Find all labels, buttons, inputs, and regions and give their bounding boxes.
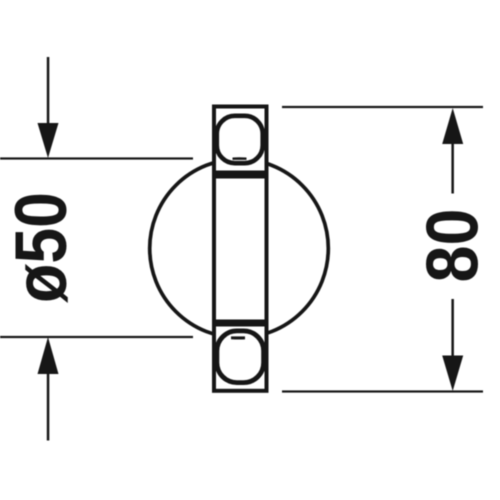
left dimension upper extension line [0,157,193,159]
left dimension lower extension line [0,336,193,338]
left lower arrowhead (points up) [38,337,59,374]
left upper arrowhead (points down) [38,123,59,158]
left upper arrow shaft [47,57,50,124]
bottom mounting bar [213,320,268,327]
ring apex tick arcs [150,159,329,338]
svg-text:80: 80 [411,209,494,283]
svg-text:ø50: ø50 [0,192,82,303]
right dimension upper extension line [282,106,483,108]
right upper arrow shaft [451,144,454,194]
ring circle (o50) [150,159,329,338]
right lower arrow shaft [451,299,454,356]
top knob (rounded square) [217,116,263,163]
bottom knob (rounded square) [217,331,264,383]
top mounting bar [213,171,268,179]
right lower arrowhead (points down) [442,356,463,392]
right dimension lower extension line [282,390,483,392]
bracket body rectangle [214,107,267,391]
right upper arrowhead (points up) [442,108,463,144]
left lower arrow shaft [47,374,50,441]
